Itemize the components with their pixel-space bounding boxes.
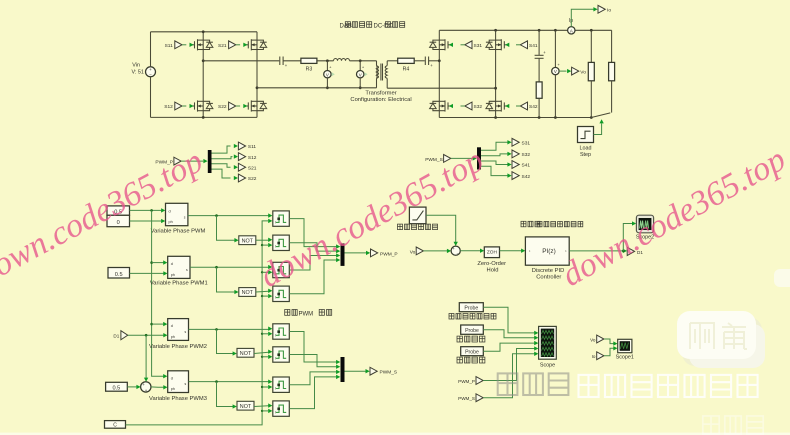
wire probe3 to scope bbox=[483, 341, 538, 351]
wire to NOT2 bbox=[217, 267, 239, 294]
block Variable Phase PWM1 bbox=[150, 256, 208, 286]
watermark white text bbox=[579, 375, 758, 397]
block soft start ramp bbox=[398, 207, 438, 230]
svg-text:+: + bbox=[145, 388, 148, 393]
goto tag PWM_P bbox=[345, 249, 398, 258]
from tag S32 bbox=[449, 102, 483, 110]
svg-text:S22: S22 bbox=[248, 176, 257, 182]
svg-text:+: + bbox=[142, 382, 145, 387]
wire ZOH to PID bbox=[500, 249, 526, 253]
wire C branch bbox=[262, 270, 272, 274]
wire NOT3 out bbox=[254, 350, 272, 354]
wire pwmp to scope bbox=[483, 346, 538, 380]
block Probe3 bbox=[457, 347, 485, 363]
label voltage loop bbox=[521, 221, 540, 227]
svg-text:D1: D1 bbox=[113, 333, 119, 338]
from tag PWM_P bbox=[155, 157, 181, 165]
svg-text:+: + bbox=[149, 67, 152, 72]
mosfet S22 bbox=[244, 100, 267, 111]
svg-text:Scope1: Scope1 bbox=[616, 355, 634, 361]
mosfet S32 bbox=[430, 100, 453, 111]
svg-text:s: s bbox=[184, 215, 186, 219]
mosfet S31 bbox=[430, 39, 453, 50]
svg-text:PWM_S: PWM_S bbox=[458, 396, 475, 401]
ammeter Ip bbox=[568, 18, 575, 34]
sum block bbox=[141, 382, 151, 393]
svg-text:d: d bbox=[171, 376, 173, 380]
svg-text:d: d bbox=[171, 324, 173, 328]
delay block Z4 bbox=[273, 286, 290, 301]
label phase shift PWM bbox=[285, 310, 298, 316]
goto tag PWM_S bbox=[345, 367, 398, 375]
delay block Z8 bbox=[273, 401, 290, 416]
svg-text:Vin: Vin bbox=[132, 63, 140, 69]
from tag PWM_P monitor bbox=[458, 377, 483, 385]
block NOT4 bbox=[237, 401, 254, 410]
wire sum to ph row4 bbox=[151, 385, 168, 389]
block Zero-Order Hold bbox=[477, 247, 506, 274]
svg-text:S11: S11 bbox=[248, 144, 257, 150]
wire bbox=[317, 59, 334, 62]
resistor Resr bbox=[536, 82, 542, 118]
svg-text:PWM_P: PWM_P bbox=[380, 252, 398, 258]
svg-text:R4: R4 bbox=[403, 66, 410, 72]
svg-text:V: 51: V: 51 bbox=[132, 69, 144, 75]
wire duty to d bbox=[130, 208, 166, 212]
svg-text:S21: S21 bbox=[248, 165, 257, 171]
svg-text:S31: S31 bbox=[522, 141, 531, 147]
svg-text:s: s bbox=[184, 330, 186, 334]
svg-text:S31: S31 bbox=[474, 43, 483, 49]
logo front card bbox=[677, 311, 756, 359]
wire bbox=[414, 60, 425, 62]
wire bbox=[429, 60, 439, 62]
watermark gray text bbox=[498, 373, 569, 395]
svg-text:V: V bbox=[554, 69, 557, 74]
svg-text:S42: S42 bbox=[529, 104, 538, 110]
wire bridge leg B bbox=[256, 32, 259, 118]
wire NOT4 out bbox=[254, 403, 272, 407]
from tag PWM_S monitor bbox=[458, 394, 483, 402]
wire duty branch row3 bbox=[152, 322, 168, 326]
svg-text:C: C bbox=[113, 423, 117, 429]
svg-text:Variable Phase PWM2: Variable Phase PWM2 bbox=[149, 344, 207, 350]
resistor Rload1 bbox=[588, 30, 594, 117]
constant 0.5 c bbox=[106, 382, 128, 391]
svg-text:Controller: Controller bbox=[536, 274, 561, 280]
block Variable Phase PWM2 bbox=[149, 319, 207, 350]
mux 2 bbox=[341, 357, 345, 382]
wire vo to scope1 bbox=[604, 339, 618, 346]
wire top rail right bridge bbox=[439, 29, 611, 32]
bottom light strip bbox=[0, 433, 790, 435]
wire probe2 to scope bbox=[483, 330, 538, 340]
wire PWM2 out row3 bbox=[189, 327, 273, 331]
from tag Vo monitor bbox=[590, 335, 604, 343]
wire to NOT4 bbox=[217, 382, 237, 409]
mosfet S12 bbox=[190, 100, 213, 111]
svg-text:V: V bbox=[359, 72, 362, 77]
wire to NOT3 bbox=[217, 329, 237, 355]
wire bridge leg D bbox=[494, 30, 497, 117]
svg-text:V: V bbox=[326, 72, 329, 77]
block Variable Phase PWM bbox=[151, 203, 206, 234]
goto tag S42 bbox=[481, 166, 530, 180]
resistor R3 bbox=[301, 58, 317, 72]
svg-text:Vo: Vo bbox=[590, 338, 596, 343]
svg-text:Hold: Hold bbox=[487, 268, 499, 274]
wire PWM out row1 bbox=[188, 213, 273, 217]
wire delay2 to mux1 bbox=[289, 243, 340, 253]
svg-text:d: d bbox=[169, 209, 171, 213]
svg-text:Vo: Vo bbox=[580, 70, 586, 76]
inductor L1 bbox=[334, 59, 350, 61]
wire bbox=[181, 159, 208, 163]
svg-text:S22: S22 bbox=[218, 104, 227, 110]
delay block Z2 bbox=[273, 235, 290, 250]
wire to NOT1 bbox=[217, 216, 239, 243]
block Discrete PID Controller bbox=[525, 237, 569, 281]
svg-text:S32: S32 bbox=[474, 104, 483, 110]
from tag D1 phase bbox=[113, 331, 127, 340]
wire bottom rail left bridge bbox=[151, 116, 258, 118]
svg-text:Io: Io bbox=[592, 354, 596, 359]
svg-text:Variable Phase PWM: Variable Phase PWM bbox=[151, 228, 206, 234]
capacitor Co bbox=[535, 30, 547, 82]
svg-text:Configuration: Electrical: Configuration: Electrical bbox=[350, 97, 411, 103]
wire delay4 to mux1 bbox=[289, 258, 340, 294]
svg-text:ZOH: ZOH bbox=[487, 250, 498, 256]
wire bbox=[350, 59, 377, 62]
logo back card bbox=[689, 324, 765, 368]
svg-text:d: d bbox=[171, 262, 173, 266]
svg-text:S42: S42 bbox=[522, 174, 531, 180]
svg-text:ph: ph bbox=[171, 273, 175, 277]
wire delay5 to mux2 bbox=[289, 332, 340, 365]
from tag S31 bbox=[449, 41, 483, 49]
from tag S21 bbox=[218, 41, 247, 49]
svg-text:Step: Step bbox=[580, 152, 591, 158]
capacitor C_p bbox=[280, 57, 288, 69]
constant 0 bbox=[107, 215, 130, 226]
constant 0.5 b bbox=[108, 268, 130, 279]
goto tag S31 bbox=[481, 138, 530, 150]
goto tag S21 bbox=[212, 163, 257, 171]
svg-text:PWM_S: PWM_S bbox=[380, 370, 398, 376]
wire phase to ph row3 bbox=[128, 333, 168, 337]
svg-text:A: A bbox=[570, 28, 573, 33]
goto tag S11 bbox=[212, 142, 257, 153]
demux 2 bbox=[477, 147, 481, 169]
wire zero to ph bbox=[130, 219, 166, 223]
wire const to ph row2 bbox=[130, 271, 168, 275]
block Probe2 bbox=[457, 325, 485, 342]
svg-text:0.5: 0.5 bbox=[113, 385, 121, 391]
watermark corner faint bbox=[703, 416, 763, 434]
mosfet S41 bbox=[486, 39, 509, 50]
wire primary return bbox=[257, 87, 377, 89]
sum block voltage loop bbox=[451, 246, 460, 256]
svg-text:S12: S12 bbox=[164, 104, 173, 110]
voltmeter V2 bbox=[357, 61, 368, 89]
delay block Z6 bbox=[273, 347, 290, 362]
svg-text:s: s bbox=[184, 382, 186, 386]
scope Scope bbox=[539, 326, 557, 368]
constant C deadtime bbox=[105, 421, 126, 429]
mosfet S42 bbox=[486, 100, 509, 111]
wire duty branch row2 bbox=[152, 260, 168, 264]
svg-text:Variable Phase PWM1: Variable Phase PWM1 bbox=[150, 281, 208, 287]
svg-text:ph: ph bbox=[169, 220, 173, 224]
wire ramp to sum bbox=[426, 215, 458, 246]
block Load Step bbox=[578, 127, 594, 158]
from tag S11 bbox=[165, 41, 194, 49]
wire delay3 to mux1 bbox=[289, 253, 340, 270]
switch blade bbox=[591, 113, 610, 118]
source Vin bbox=[132, 63, 156, 78]
wire PWM1 out row2 bbox=[190, 265, 272, 269]
wire delay8 to mux2 bbox=[289, 375, 340, 409]
svg-text:S41: S41 bbox=[529, 43, 538, 49]
svg-text:ph: ph bbox=[171, 387, 175, 391]
from tag PWM_S bbox=[425, 155, 451, 164]
logo shadow bbox=[682, 317, 762, 366]
mux 1 bbox=[341, 243, 345, 266]
wire bottom rail right bridge bbox=[439, 116, 592, 119]
delay block Z7 bbox=[273, 377, 290, 392]
svg-text:S32: S32 bbox=[522, 152, 531, 158]
wire secondary return bbox=[387, 87, 495, 89]
svg-text:R3: R3 bbox=[306, 66, 313, 72]
wire to scope2 bbox=[623, 221, 636, 251]
capacitor C_s bbox=[425, 57, 433, 69]
wire bbox=[387, 60, 398, 62]
wire duty bus vertical bbox=[150, 210, 167, 378]
wire sum to ZOH bbox=[460, 249, 484, 253]
wire PID out to D1 bbox=[569, 249, 627, 253]
svg-text:PI(z): PI(z) bbox=[542, 248, 556, 255]
scope Scope2 bbox=[636, 215, 654, 240]
goto tag Io bbox=[571, 5, 611, 26]
wire bridge leg C bbox=[438, 30, 441, 117]
wire pwms to scope bbox=[483, 352, 538, 398]
wire probe1 to scope bbox=[483, 307, 538, 335]
block NOT1 bbox=[239, 236, 256, 245]
scope Scope1 bbox=[616, 339, 634, 360]
svg-text:Io: Io bbox=[607, 8, 611, 14]
wire bridge leg A bbox=[202, 30, 205, 118]
delay block Z3 bbox=[273, 262, 290, 277]
svg-text:Transformer: Transformer bbox=[365, 90, 396, 96]
wire C branch bbox=[262, 385, 272, 389]
svg-text:s: s bbox=[186, 268, 188, 272]
svg-text:Zero-Order: Zero-Order bbox=[477, 261, 506, 267]
block NOT2 bbox=[239, 288, 256, 297]
logo glyph 2 bbox=[722, 323, 747, 349]
from tag Io monitor bbox=[592, 352, 604, 360]
svg-text:S11: S11 bbox=[165, 43, 174, 49]
wire PWM3 out row4 bbox=[189, 380, 273, 384]
goto tag S32 bbox=[481, 150, 530, 158]
from tag S22 bbox=[218, 102, 247, 110]
svg-text:S12: S12 bbox=[248, 155, 257, 161]
wire C branch bbox=[262, 332, 272, 336]
svg-text:ph: ph bbox=[171, 335, 175, 339]
constant 0.5 a bbox=[107, 206, 130, 215]
wire load step to switch bbox=[594, 119, 604, 134]
goto tag S41 bbox=[481, 161, 530, 169]
goto tag S22 bbox=[212, 169, 257, 182]
block NOT3 bbox=[237, 348, 254, 357]
svg-text:Probe: Probe bbox=[464, 305, 478, 311]
svg-text:S41: S41 bbox=[522, 163, 531, 169]
block Variable Phase PWM3 bbox=[149, 371, 207, 402]
svg-text:Probe: Probe bbox=[465, 349, 479, 355]
svg-text:PWM: PWM bbox=[299, 311, 314, 317]
svg-text:Probe: Probe bbox=[465, 328, 479, 334]
mosfet S21 bbox=[244, 39, 267, 50]
wire delay6 to mux2 bbox=[289, 355, 340, 369]
wire NOT2 out bbox=[256, 289, 273, 293]
wire C branch bbox=[262, 243, 272, 247]
wire io to scope1 bbox=[604, 346, 618, 356]
wire top rail left bridge bbox=[151, 31, 258, 33]
delay block Z1 bbox=[273, 211, 290, 226]
block Probe1 bbox=[449, 303, 496, 319]
svg-text:PWM_P: PWM_P bbox=[458, 379, 475, 384]
wire C bus bbox=[126, 219, 273, 425]
goto tag S12 bbox=[212, 153, 257, 161]
voltmeter Vo bbox=[552, 30, 561, 117]
transformer T1 bbox=[350, 61, 411, 103]
svg-text:Variable Phase PWM3: Variable Phase PWM3 bbox=[149, 396, 207, 402]
goto tag Vo bbox=[559, 67, 586, 75]
wire Vo to sum bbox=[423, 249, 451, 253]
svg-text:Vo: Vo bbox=[410, 249, 416, 255]
wire const to sum bbox=[127, 385, 140, 389]
from tag Vo feedback bbox=[410, 247, 424, 255]
from tag S12 bbox=[164, 102, 193, 110]
wire C branch bbox=[262, 355, 272, 359]
svg-text:Load: Load bbox=[580, 145, 592, 151]
from tag S42 bbox=[505, 102, 538, 110]
mosfet S11 bbox=[190, 39, 213, 50]
wire bbox=[284, 60, 301, 62]
delay block Z5 bbox=[273, 324, 290, 339]
wire bbox=[451, 156, 477, 160]
voltmeter V1 bbox=[324, 61, 335, 89]
logo glyph 1 bbox=[690, 323, 714, 349]
svg-text:S21: S21 bbox=[218, 43, 227, 49]
wire left rail bbox=[150, 32, 152, 118]
wire delay1 to mux1 bbox=[289, 219, 340, 249]
wire primary link bbox=[203, 60, 279, 62]
svg-text:0.5: 0.5 bbox=[115, 272, 123, 278]
wire NOT1 out bbox=[256, 238, 273, 242]
svg-text:Scope: Scope bbox=[540, 362, 555, 368]
goto tag D1 bbox=[627, 247, 643, 255]
resistor Rload2 bbox=[609, 30, 615, 112]
wire C branch bbox=[262, 294, 272, 298]
wire phase down to sum bbox=[144, 335, 148, 382]
logo edge partial bbox=[774, 269, 790, 287]
resistor R4 bbox=[398, 58, 415, 72]
from tag S41 bbox=[505, 41, 538, 49]
wire delay7 to mux2 bbox=[289, 370, 340, 385]
wire C branch bbox=[262, 409, 272, 413]
demux 1 bbox=[208, 150, 212, 173]
